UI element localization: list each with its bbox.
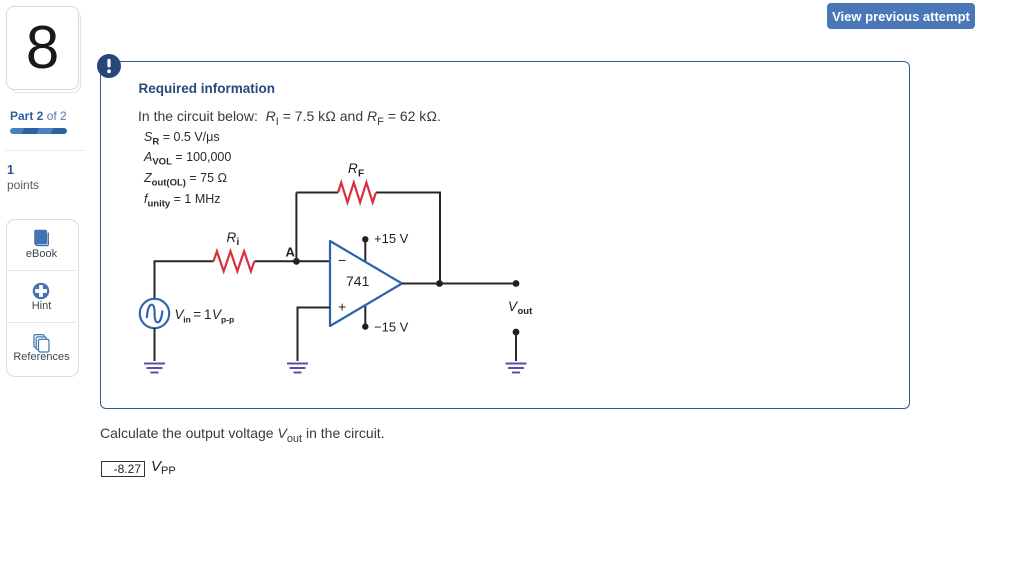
wire: feedback top run xyxy=(296,193,440,284)
svg-text:=: = xyxy=(193,307,201,322)
Hint icon xyxy=(32,282,50,300)
alert badge xyxy=(97,54,121,78)
wire: output xyxy=(402,283,516,285)
pin minus xyxy=(338,252,346,268)
tools box xyxy=(6,219,79,377)
answer row xyxy=(101,461,145,477)
node -15V dot xyxy=(362,323,368,329)
label RF xyxy=(348,161,364,180)
question text xyxy=(100,425,385,441)
source Vin xyxy=(140,299,169,328)
label Vin = 1 Vp-p xyxy=(175,307,235,325)
svg-text:−15 V: −15 V xyxy=(374,320,409,335)
node +15V dot xyxy=(362,236,368,242)
separator xyxy=(5,150,85,151)
label RI xyxy=(227,230,240,248)
points xyxy=(7,163,14,177)
wire: source bottom to ground xyxy=(154,328,156,361)
svg-text:p-p: p-p xyxy=(221,315,234,325)
svg-text:+: + xyxy=(338,299,346,315)
wire: load to ground xyxy=(515,332,517,361)
required info panel xyxy=(100,61,910,409)
ground (source) xyxy=(144,364,165,373)
node: output junction dot xyxy=(436,280,443,287)
label -15 V xyxy=(374,320,409,335)
op-amp U1 741 xyxy=(330,241,402,326)
svg-text:741: 741 xyxy=(346,273,370,289)
part label xyxy=(10,109,67,123)
svg-text:−: − xyxy=(338,252,346,268)
label Vout xyxy=(508,299,533,317)
svg-text:R: R xyxy=(348,161,358,176)
node A dot xyxy=(293,258,300,265)
svg-text:in: in xyxy=(183,315,191,325)
eBook icon xyxy=(32,228,52,250)
svg-text:out: out xyxy=(518,306,534,317)
ground (Vout) xyxy=(506,364,527,373)
wire: input from source top to op-amp inverting input xyxy=(155,261,331,299)
svg-text:A: A xyxy=(286,245,296,260)
op-amp label 741 xyxy=(346,273,370,289)
ground (op-amp + input) xyxy=(287,364,308,373)
wire: non-inverting input to ground xyxy=(298,308,331,362)
References icon xyxy=(32,333,50,353)
node: Vout terminal dot xyxy=(513,280,520,287)
progress bar xyxy=(10,128,67,134)
View previous attempt button xyxy=(827,3,975,29)
left sidebar: question number card (stacked) xyxy=(10,10,81,93)
svg-text:+15 V: +15 V xyxy=(374,231,409,246)
resistor RI xyxy=(214,251,255,271)
label +15 V xyxy=(374,231,409,246)
wire: node A up to feedback xyxy=(295,193,297,262)
node: load terminal dot xyxy=(513,329,520,336)
wire: power rail through op-amp xyxy=(364,239,366,326)
resistor RF xyxy=(338,183,376,203)
spec list xyxy=(144,127,231,210)
pin plus xyxy=(338,299,346,315)
svg-text:i: i xyxy=(237,237,240,248)
svg-text:1: 1 xyxy=(204,307,212,322)
label node A xyxy=(286,245,296,260)
svg-text:R: R xyxy=(227,230,237,245)
svg-text:F: F xyxy=(358,169,364,180)
